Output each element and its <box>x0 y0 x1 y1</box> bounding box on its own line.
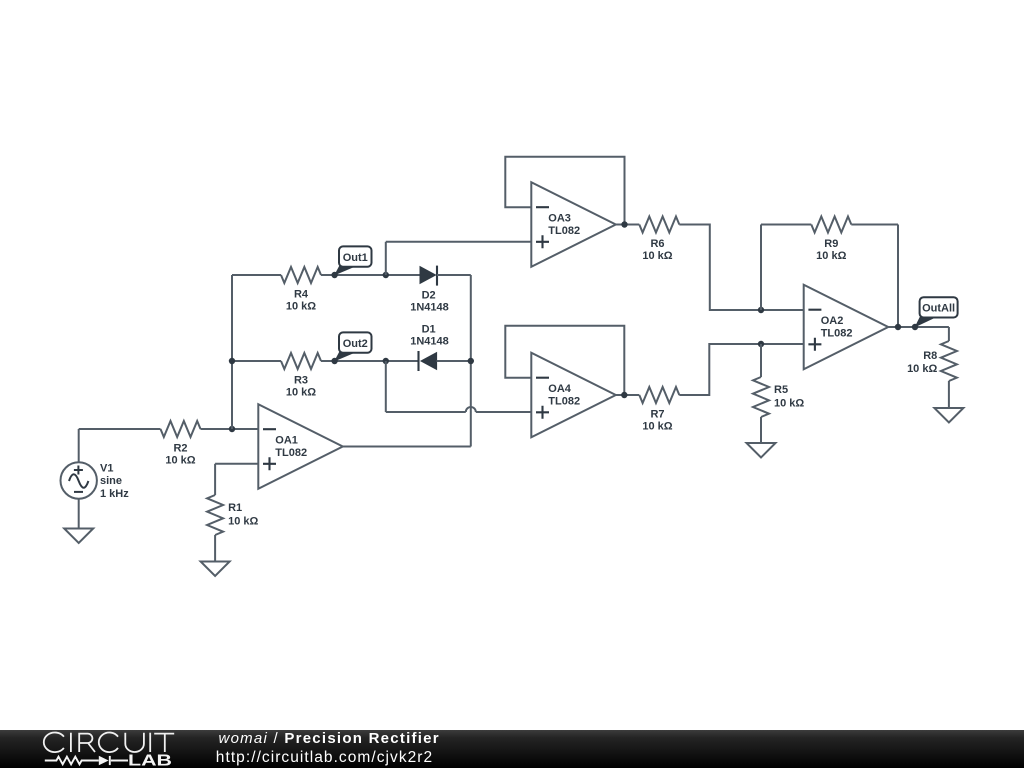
wire down to OA4 + row <box>385 361 387 412</box>
svg-text:OA2: OA2 <box>821 315 844 327</box>
svg-text:TL082: TL082 <box>821 328 853 340</box>
wire to R4 <box>232 274 281 276</box>
junction R3 left tee <box>229 358 235 364</box>
svg-text:10 kΩ: 10 kΩ <box>642 421 672 433</box>
resistor R3 <box>281 353 321 399</box>
junction OA1 inverting input node <box>229 426 235 432</box>
ground below R8 <box>934 408 963 423</box>
resistor R4 <box>281 267 321 313</box>
wire OA4 feedback loop <box>505 326 624 395</box>
wire to R3 <box>232 360 281 362</box>
junction OA2 non-inverting node <box>758 341 764 347</box>
svg-text:10 kΩ: 10 kΩ <box>165 455 195 467</box>
svg-text:R9: R9 <box>824 238 838 250</box>
svg-text:R1: R1 <box>228 502 242 514</box>
svg-text:R6: R6 <box>650 238 664 250</box>
junction OA4 non-inverting tap <box>383 358 389 364</box>
op-amp OA3 <box>531 182 616 267</box>
svg-text:OutAll: OutAll <box>922 303 955 315</box>
wire V1 top to R2 row <box>78 429 80 462</box>
wire R5 to ground <box>760 417 762 443</box>
svg-text:1N4148: 1N4148 <box>410 336 449 348</box>
svg-text:Out2: Out2 <box>343 338 368 350</box>
svg-text:10 kΩ: 10 kΩ <box>286 301 316 313</box>
junction OA4 output <box>621 392 627 398</box>
resistor R9 <box>811 217 851 263</box>
junction Out1 anchor <box>331 272 337 278</box>
junction OA3 non-inverting tap <box>383 272 389 278</box>
junction OA2 output feedback tee <box>895 324 901 330</box>
wire R1 to ground <box>214 535 216 562</box>
svg-text:LAB: LAB <box>128 752 172 768</box>
op-amp OA2 <box>804 285 889 370</box>
CircuitLab logo <box>0 730 200 768</box>
svg-text:OA1: OA1 <box>275 435 298 447</box>
wire R9 to inverting node <box>760 225 762 311</box>
wire to OA4 noninverting (left of hop) <box>386 411 466 413</box>
wire R9 down to OA2 output <box>897 225 899 328</box>
wire OA1 output <box>343 446 471 448</box>
svg-text:TL082: TL082 <box>548 396 580 408</box>
footer title text <box>219 731 440 746</box>
wire V1 bottom to ground <box>78 499 80 529</box>
svg-text:1 kHz: 1 kHz <box>100 488 129 500</box>
svg-text:10 kΩ: 10 kΩ <box>286 387 316 399</box>
wire R6 to OA2 inverting input <box>679 225 803 311</box>
wire down to R8 <box>948 327 950 341</box>
wire to R9 <box>761 224 811 226</box>
resistor R7 <box>639 387 679 433</box>
wire up to OA3 + row <box>385 242 387 275</box>
wire to OA4 noninverting (right of hop) <box>476 411 532 413</box>
wire down to R5 <box>760 344 762 377</box>
svg-text:Out1: Out1 <box>343 252 368 264</box>
svg-text:10 kΩ: 10 kΩ <box>642 250 672 262</box>
junction D1 loop tee <box>468 358 474 364</box>
svg-text:OA4: OA4 <box>548 383 572 395</box>
junction OA3 output <box>621 221 627 227</box>
svg-text:D2: D2 <box>422 289 436 301</box>
wire R1 to OA1 non-inverting input <box>215 463 258 465</box>
svg-text:TL082: TL082 <box>275 447 307 459</box>
svg-text:R4: R4 <box>294 288 309 300</box>
op-amp OA1 <box>258 404 343 489</box>
wire D2 cathode to loop <box>437 274 471 276</box>
svg-text:OA3: OA3 <box>548 213 571 225</box>
node Out2 flag <box>334 332 371 361</box>
node OutAll flag <box>915 297 958 327</box>
wire R3 to D1 <box>321 360 418 362</box>
resistor R1 <box>207 495 258 535</box>
wire R4 to D2 <box>321 274 420 276</box>
svg-text:TL082: TL082 <box>548 225 580 237</box>
junction OA2 inverting node <box>758 307 764 313</box>
ground below V1 <box>64 529 93 544</box>
wire R8 to ground <box>948 381 950 408</box>
svg-text:1N4148: 1N4148 <box>410 301 449 313</box>
svg-text:R3: R3 <box>294 374 308 386</box>
junction OutAll anchor <box>912 324 918 330</box>
svg-text:R2: R2 <box>173 442 187 454</box>
wire OA2 output <box>888 326 949 328</box>
ground below R1 <box>201 562 230 577</box>
wire vertical OA1 output loop <box>470 275 472 447</box>
svg-text:R8: R8 <box>923 350 937 362</box>
footer url text <box>216 750 433 766</box>
svg-text:10 kΩ: 10 kΩ <box>228 516 258 528</box>
svg-text:R7: R7 <box>650 408 664 420</box>
svg-text:10 kΩ: 10 kΩ <box>907 363 937 375</box>
svg-text:sine: sine <box>100 475 122 487</box>
voltage source V1 (sine 1 kHz) <box>60 462 129 500</box>
wire to OA3 non-inverting input <box>386 241 532 243</box>
diode D2 1N4148 <box>410 266 449 314</box>
footer bar <box>0 730 1024 768</box>
wire R9 to output column <box>851 224 898 226</box>
svg-text:D1: D1 <box>422 324 436 336</box>
resistor R8 <box>907 341 957 381</box>
wire vertical feedback bus <box>231 275 233 429</box>
resistor R6 <box>639 217 679 263</box>
ground below R5 <box>747 443 776 458</box>
wire OA3 feedback loop <box>505 157 624 225</box>
wire OA1 + down to R1 <box>214 464 216 495</box>
svg-text:10 kΩ: 10 kΩ <box>816 250 846 262</box>
wire R7 to OA2 non-inverting input <box>679 344 803 395</box>
svg-text:R5: R5 <box>774 384 788 396</box>
node Out1 flag <box>334 246 371 275</box>
svg-text:V1: V1 <box>100 463 113 475</box>
wire OA4 output to R7 <box>616 394 640 396</box>
diode D1 1N4148 <box>410 324 449 371</box>
wire OA3 output to R6 <box>616 224 640 226</box>
resistor R5 <box>753 377 804 417</box>
junction Out2 anchor <box>331 358 337 364</box>
wire R2 to OA1 inverting input <box>201 428 259 430</box>
resistor R2 <box>161 421 201 467</box>
wire to R2 <box>79 428 161 430</box>
wire D1 anode to loop <box>437 360 471 362</box>
op-amp OA4 <box>531 353 616 438</box>
wire hop over vertical loop <box>466 407 476 412</box>
svg-text:10 kΩ: 10 kΩ <box>774 398 804 410</box>
